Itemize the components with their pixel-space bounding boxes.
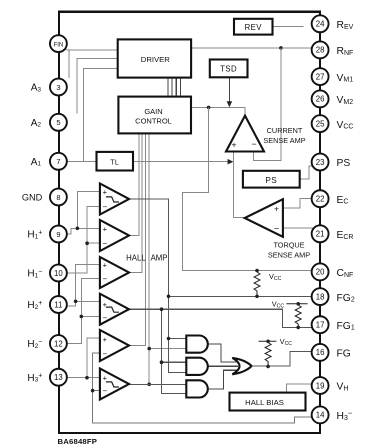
- svg-text:18: 18: [316, 292, 325, 301]
- pin 19: [312, 377, 329, 394]
- svg-text:10: 10: [54, 269, 63, 278]
- pin 3: [50, 79, 67, 96]
- pin 13: [50, 369, 67, 386]
- REV box: [234, 19, 273, 35]
- svg-text:11: 11: [54, 300, 62, 309]
- resistor FG1 pull-up: [286, 304, 307, 326]
- svg-text:20: 20: [316, 268, 325, 277]
- svg-text:22: 22: [316, 195, 325, 204]
- svg-text:TL: TL: [110, 159, 119, 166]
- svg-text:16: 16: [316, 348, 325, 357]
- junction dot RNF: [279, 46, 283, 50]
- hall amp T6 (hysteresis comparator): [100, 369, 129, 400]
- svg-text:PS: PS: [265, 176, 277, 185]
- wire pin10 to T2-/T1-: [67, 206, 100, 273]
- svg-text:26: 26: [316, 95, 325, 104]
- wire RNF down to current sense - input: [254, 48, 281, 161]
- AND gate G3: [186, 380, 208, 397]
- svg-text:CONTROL: CONTROL: [135, 116, 172, 125]
- svg-text:+: +: [274, 204, 279, 214]
- svg-text:BA6848FP: BA6848FP: [58, 437, 98, 446]
- svg-text:17: 17: [316, 321, 325, 330]
- GAIN CONTROL box: [118, 97, 191, 134]
- pin 20: [312, 263, 329, 280]
- pin 24: [312, 15, 329, 32]
- svg-text:25: 25: [316, 119, 325, 128]
- junction dot: [91, 389, 95, 393]
- svg-text:−: −: [102, 239, 107, 248]
- svg-text:21: 21: [316, 230, 325, 239]
- svg-text:27: 27: [316, 72, 325, 81]
- hall amp T3: [100, 257, 129, 288]
- pin 9: [50, 226, 67, 243]
- TL box: [97, 152, 134, 171]
- pin FIN: [50, 35, 67, 52]
- svg-text:+: +: [103, 335, 108, 344]
- svg-text:−: −: [102, 387, 107, 396]
- wire AND2 output to OR: [208, 365, 238, 367]
- pin 21: [312, 225, 329, 242]
- wire pin14 H3- long route to T6-/T5-: [93, 353, 312, 423]
- gain trunk down to T6 output / AND1 lower input: [149, 133, 186, 384]
- hall amp T4 (hysteresis comparator): [100, 294, 129, 325]
- svg-text:14: 14: [316, 411, 325, 420]
- junction dot: [207, 106, 211, 110]
- svg-text:TSD: TSD: [220, 64, 237, 73]
- svg-text:−: −: [102, 275, 107, 284]
- junction dot: [147, 347, 151, 351]
- wire AND3 output to OR: [208, 370, 238, 389]
- svg-text:−: −: [251, 139, 256, 149]
- HALL BIAS box: [230, 393, 306, 411]
- torque sense amp U-TS: [245, 199, 283, 237]
- wire A2 to DRIVER: [77, 59, 118, 114]
- junction dot AND1: [167, 337, 171, 341]
- svg-text:+: +: [232, 139, 237, 149]
- svg-text:+: +: [103, 260, 108, 269]
- resistor FG2 pull-up: [254, 272, 260, 295]
- svg-text:SENSE AMP: SENSE AMP: [268, 250, 310, 259]
- junction dot FG2: [167, 295, 171, 299]
- svg-text:FIN: FIN: [54, 42, 64, 48]
- IC outer border: [59, 12, 320, 433]
- wire pin7 to TL: [67, 160, 96, 162]
- svg-text:−: −: [274, 224, 279, 234]
- wire T4 output FG1 trunk: [129, 309, 312, 393]
- svg-text:−: −: [102, 203, 107, 212]
- svg-text:FG: FG: [337, 349, 351, 360]
- svg-text:PS: PS: [337, 158, 351, 169]
- wire TSD trunk down to CNF pin20: [183, 107, 312, 270]
- svg-text:+: +: [103, 188, 108, 197]
- svg-text:GAIN: GAIN: [144, 107, 162, 116]
- pin 14: [312, 406, 329, 423]
- pin 23: [312, 154, 329, 171]
- pin 26: [312, 90, 329, 107]
- junction dot: [76, 227, 80, 231]
- junction dot: [85, 376, 89, 380]
- svg-text:−: −: [102, 313, 107, 322]
- svg-text:REV: REV: [245, 23, 263, 32]
- svg-text:13: 13: [54, 373, 63, 382]
- hall amp T5: [100, 330, 129, 361]
- gain trunk to T3 output: [129, 133, 142, 272]
- svg-text:8: 8: [56, 193, 60, 202]
- svg-text:9: 9: [56, 230, 60, 239]
- pin 27: [312, 68, 329, 85]
- hall amp T1 (hysteresis comparator): [100, 184, 129, 215]
- svg-text:TORQUE: TORQUE: [273, 240, 304, 249]
- svg-text:AMP: AMP: [151, 253, 168, 262]
- wire HALL BIAS to pin19: [287, 384, 312, 393]
- wire T6 output to AND3: [129, 383, 186, 385]
- wire FIN/A3 to DRIVER: [65, 50, 118, 79]
- svg-text:5: 5: [56, 118, 60, 127]
- hall amp T2: [100, 220, 129, 251]
- svg-text:19: 19: [316, 381, 325, 390]
- pin 25: [312, 115, 329, 132]
- wire torque amp - to pin21: [283, 227, 313, 229]
- pin 8: [50, 189, 67, 206]
- wire REV box to pin24: [273, 26, 304, 28]
- junction dot: [74, 300, 78, 304]
- wire PS box to pin23: [300, 166, 313, 179]
- pin 22: [312, 190, 329, 207]
- wire pin11 to T4+/T3+: [67, 264, 100, 306]
- gain trunk to T2 output: [129, 133, 139, 235]
- DRIVER box U-driver: [118, 39, 191, 77]
- gain trunk to T5 output: [129, 133, 146, 345]
- svg-text:CURRENT: CURRENT: [267, 126, 303, 135]
- svg-text:HALL BIAS: HALL BIAS: [245, 398, 284, 407]
- pin 10: [50, 265, 67, 282]
- OR gate G4: [232, 358, 251, 374]
- wire TL output arrow to current sense + node: [133, 161, 228, 163]
- wire A1 to DRIVER: [84, 69, 118, 162]
- wire current sense + input down to torque amp output: [233, 152, 244, 218]
- svg-text:HALL: HALL: [126, 253, 146, 262]
- wire DRIVER to RNF pin28: [192, 47, 312, 49]
- junction dot: [85, 241, 89, 245]
- pin 11: [50, 296, 67, 313]
- PS box: [243, 171, 300, 188]
- svg-text:−: −: [102, 349, 107, 358]
- pin 17: [312, 316, 329, 333]
- junction dot: [147, 383, 151, 387]
- TSD box: [210, 60, 248, 78]
- wire AND1 output to OR: [208, 344, 238, 362]
- wire T1 output trunk: [129, 199, 311, 372]
- svg-text:DRIVER: DRIVER: [141, 55, 170, 64]
- wire pin13 to T6+/T5+: [67, 338, 100, 378]
- wire OR output to pin16 FG: [251, 352, 311, 367]
- pin 12: [50, 335, 67, 352]
- wire pin9 to hall amps T2+/T1+: [67, 191, 100, 234]
- svg-text:28: 28: [316, 46, 325, 55]
- AND gate G1: [186, 336, 208, 353]
- svg-text:12: 12: [54, 339, 63, 348]
- AND gate G2: [186, 358, 208, 375]
- resistor FG pull-up: [259, 341, 277, 365]
- current sense amp U-CS: [226, 116, 264, 152]
- svg-text:24: 24: [316, 20, 325, 29]
- pin 18: [312, 288, 329, 305]
- wire GAIN to current sense amp output node: [192, 107, 245, 115]
- svg-text:SENSE AMP: SENSE AMP: [263, 136, 305, 145]
- driver-gain bus: [168, 78, 180, 95]
- junction dot: [160, 307, 164, 311]
- svg-text:23: 23: [316, 158, 325, 167]
- wire pin12 to T4-/T3-: [67, 279, 100, 344]
- junction dot: [80, 315, 84, 319]
- TSD output arrow: [228, 77, 230, 102]
- svg-text:7: 7: [56, 157, 60, 166]
- svg-text:+: +: [103, 224, 108, 233]
- junction dot: [160, 360, 164, 364]
- wire torque amp + to pin22: [283, 199, 311, 208]
- pin 7: [50, 153, 67, 170]
- svg-text:GND: GND: [22, 192, 43, 202]
- svg-text:3: 3: [56, 83, 60, 92]
- pin 16: [312, 344, 329, 361]
- pin 5: [50, 114, 67, 131]
- pin 28: [312, 41, 329, 58]
